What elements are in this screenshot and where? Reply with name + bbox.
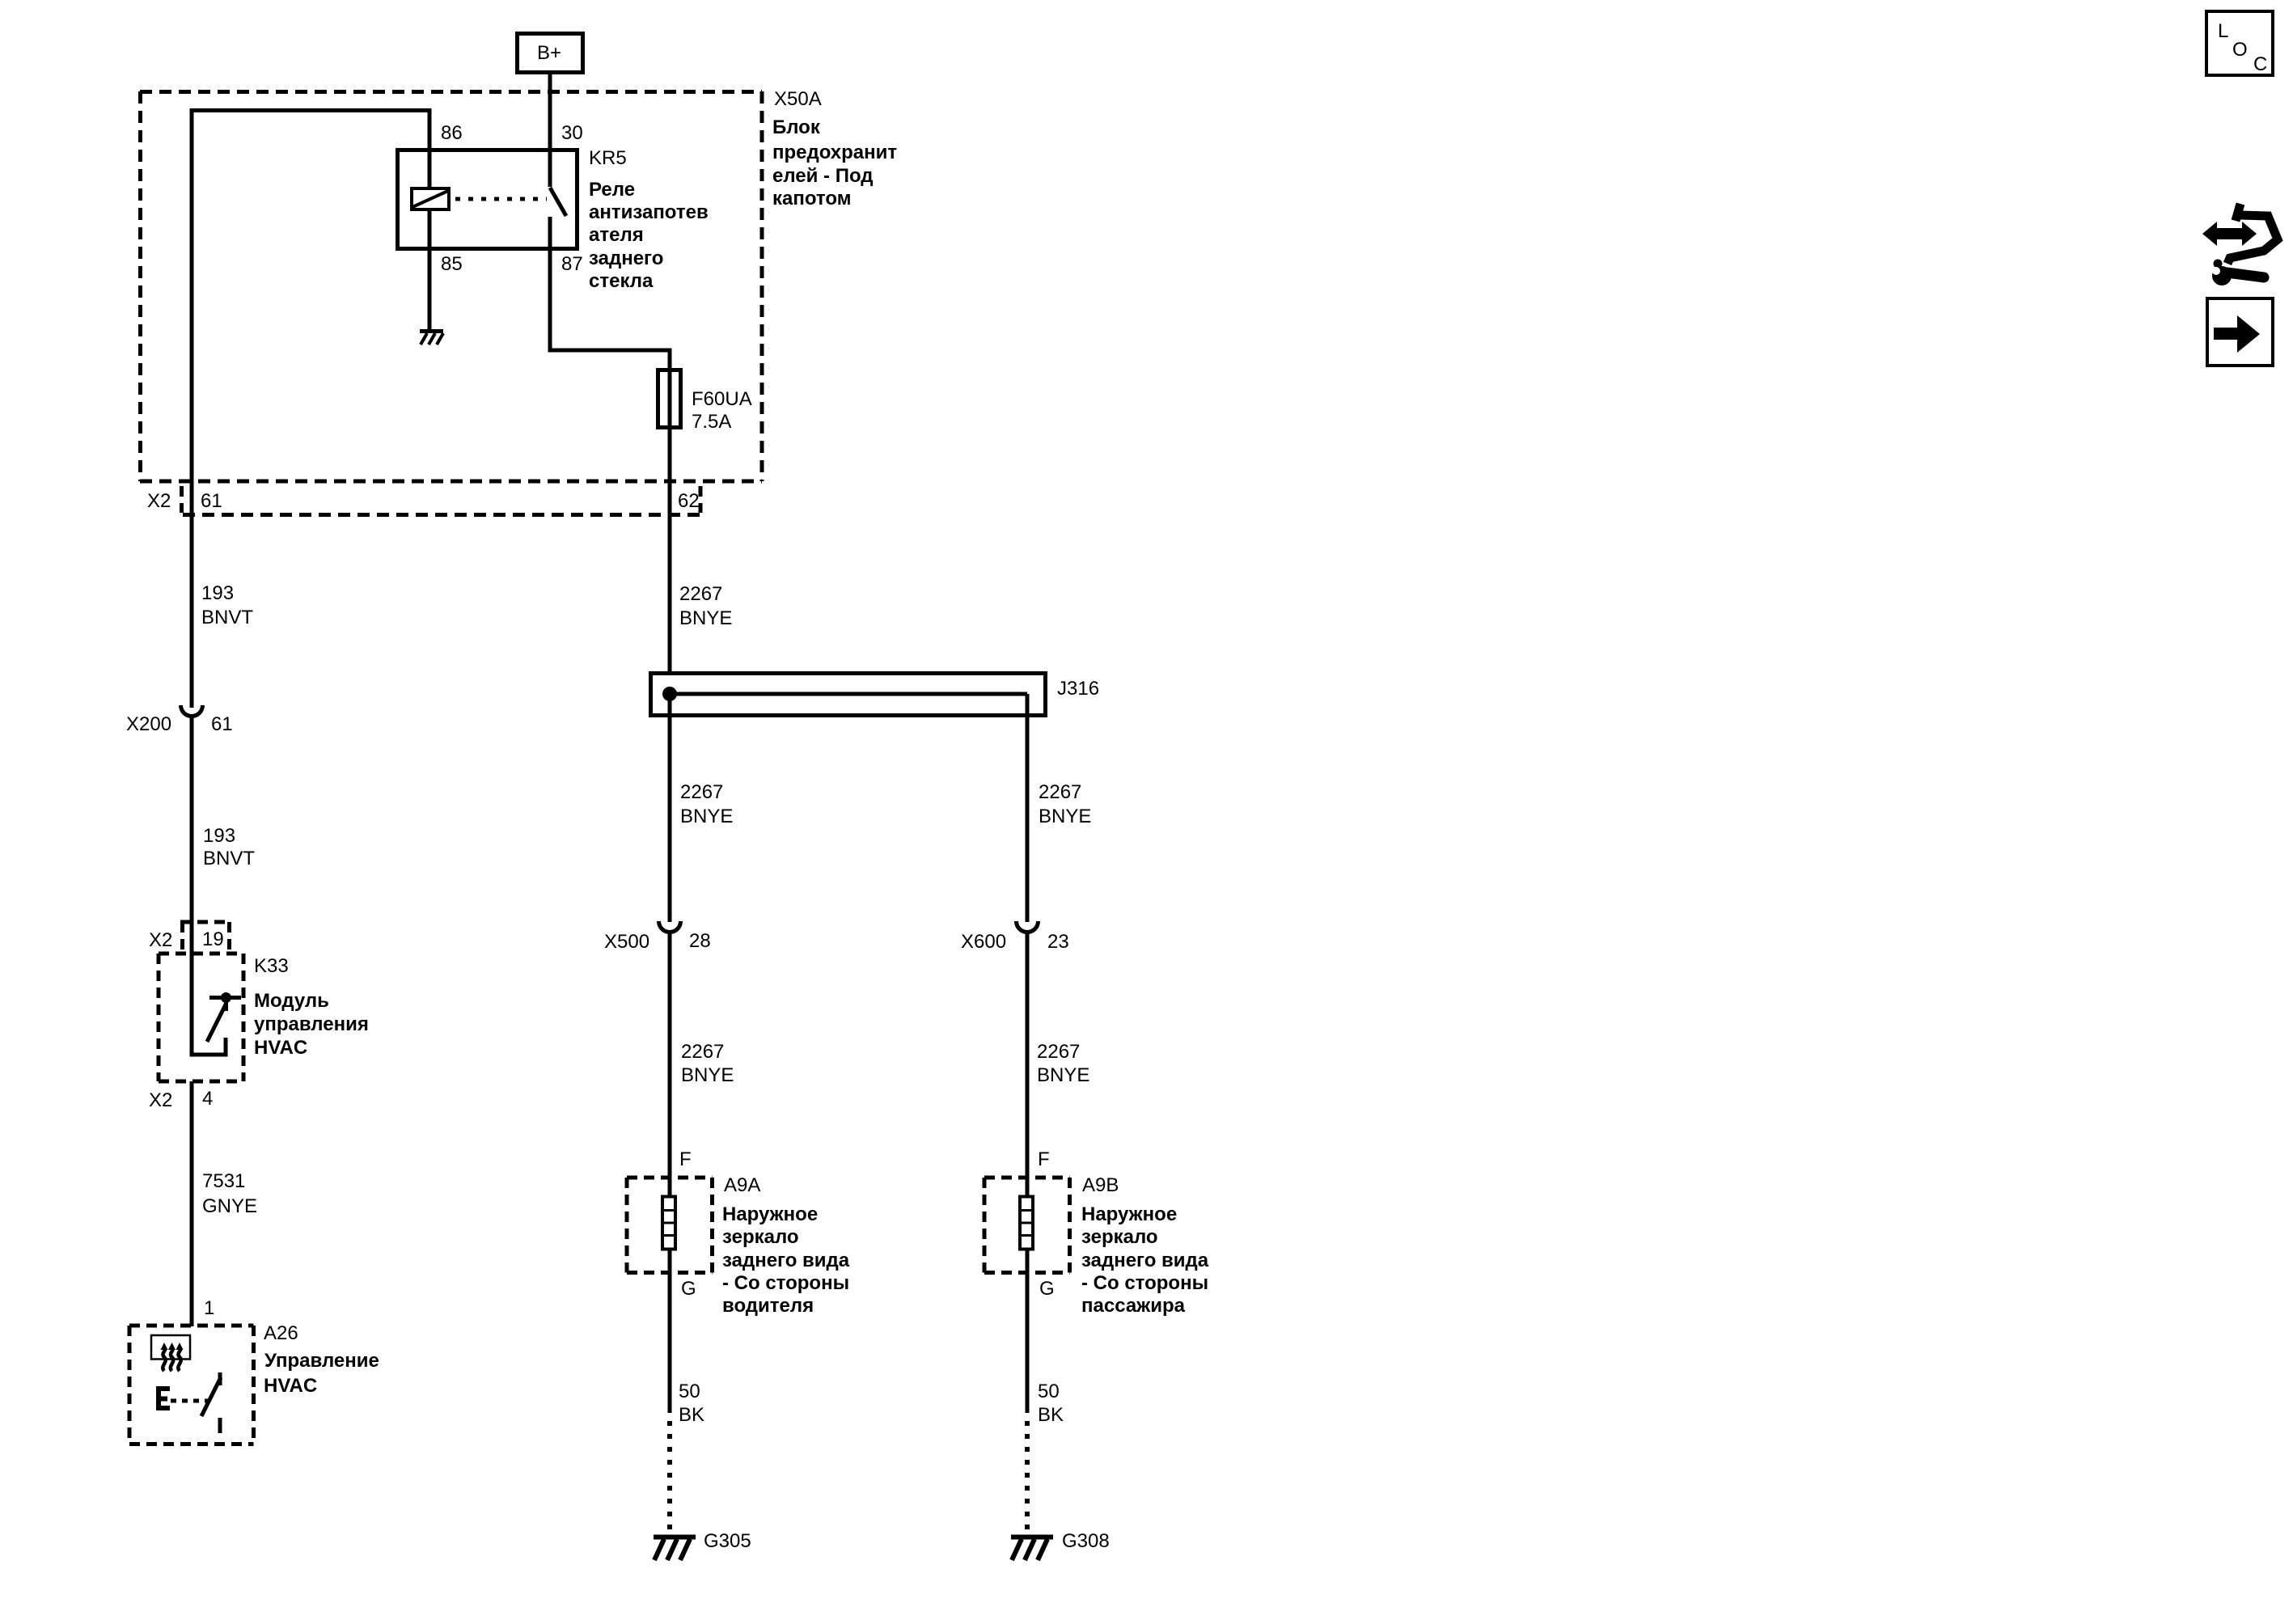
svg-text:K33: K33	[254, 955, 289, 977]
svg-text:BNYE: BNYE	[681, 1064, 734, 1086]
svg-text:193: 193	[203, 825, 235, 847]
svg-text:Наружное: Наружное	[722, 1203, 818, 1225]
svg-text:61: 61	[211, 713, 233, 735]
svg-text:50: 50	[1038, 1381, 1060, 1402]
svg-text:HVAC: HVAC	[254, 1037, 307, 1059]
svg-text:HVAC: HVAC	[264, 1375, 317, 1397]
svg-text:заднего вида: заднего вида	[722, 1250, 850, 1271]
svg-text:зеркало: зеркало	[1081, 1226, 1158, 1248]
svg-text:BNYE: BNYE	[679, 607, 732, 629]
svg-text:заднего вида: заднего вида	[1081, 1250, 1209, 1271]
svg-text:пассажира: пассажира	[1081, 1295, 1186, 1317]
svg-text:F: F	[1038, 1148, 1050, 1170]
svg-text:KR5: KR5	[589, 147, 627, 169]
svg-text:антизапотев: антизапотев	[589, 201, 709, 223]
svg-text:X500: X500	[604, 931, 649, 953]
svg-text:2267: 2267	[1039, 781, 1081, 803]
svg-text:Наружное: Наружное	[1081, 1203, 1177, 1225]
svg-text:A9B: A9B	[1082, 1174, 1119, 1196]
svg-text:28: 28	[689, 930, 711, 952]
svg-text:23: 23	[1047, 931, 1069, 953]
svg-text:2267: 2267	[681, 1041, 724, 1063]
svg-text:зеркало: зеркало	[722, 1226, 799, 1248]
svg-text:BK: BK	[1038, 1404, 1064, 1426]
svg-text:19: 19	[202, 928, 224, 950]
svg-text:4: 4	[202, 1088, 213, 1110]
svg-text:1: 1	[204, 1297, 214, 1319]
svg-text:GNYE: GNYE	[202, 1195, 257, 1217]
svg-text:BNYE: BNYE	[1037, 1064, 1089, 1086]
svg-text:Управление: Управление	[264, 1350, 379, 1372]
svg-text:L: L	[2218, 20, 2228, 42]
svg-text:- Со стороны: - Со стороны	[1081, 1272, 1208, 1294]
svg-text:Блок: Блок	[772, 116, 821, 138]
svg-text:X2: X2	[147, 490, 171, 512]
svg-text:30: 30	[561, 122, 583, 144]
svg-text:2267: 2267	[680, 781, 723, 803]
svg-text:BNYE: BNYE	[680, 806, 733, 827]
svg-text:G305: G305	[704, 1530, 751, 1552]
svg-text:капотом: капотом	[772, 188, 851, 209]
svg-text:7.5A: 7.5A	[692, 411, 731, 433]
svg-text:7531: 7531	[202, 1170, 245, 1192]
svg-text:61: 61	[201, 490, 222, 512]
svg-text:2267: 2267	[1037, 1041, 1080, 1063]
svg-text:2267: 2267	[679, 583, 722, 605]
svg-text:O: O	[2232, 39, 2248, 61]
svg-text:86: 86	[441, 122, 463, 144]
svg-text:C: C	[2253, 53, 2267, 75]
svg-text:X600: X600	[961, 931, 1006, 953]
svg-text:A26: A26	[264, 1322, 298, 1344]
svg-text:X2: X2	[149, 929, 172, 951]
svg-text:водителя: водителя	[722, 1295, 814, 1317]
svg-text:A9A: A9A	[724, 1174, 760, 1196]
svg-text:Реле: Реле	[589, 179, 635, 201]
svg-text:ателя: ателя	[589, 224, 644, 246]
svg-text:BNVT: BNVT	[201, 607, 253, 628]
svg-text:X50A: X50A	[774, 88, 822, 110]
svg-text:62: 62	[678, 490, 700, 512]
svg-text:стекла: стекла	[589, 270, 654, 292]
svg-text:X200: X200	[126, 713, 171, 735]
svg-text:X2: X2	[149, 1089, 172, 1111]
svg-text:F60UA: F60UA	[692, 388, 752, 410]
svg-text:G: G	[681, 1278, 696, 1300]
svg-text:B+: B+	[537, 42, 561, 64]
svg-text:предохранит: предохранит	[772, 142, 897, 163]
svg-text:193: 193	[201, 582, 234, 604]
svg-text:BNVT: BNVT	[203, 848, 255, 869]
svg-text:Модуль: Модуль	[254, 990, 329, 1012]
svg-text:- Со стороны: - Со стороны	[722, 1272, 849, 1294]
svg-text:заднего: заднего	[589, 247, 663, 269]
svg-text:BNYE: BNYE	[1039, 806, 1091, 827]
svg-text:BK: BK	[679, 1404, 704, 1426]
svg-text:G: G	[1039, 1278, 1055, 1300]
svg-text:85: 85	[441, 253, 463, 275]
svg-text:управления: управления	[254, 1013, 369, 1035]
svg-text:G308: G308	[1062, 1530, 1110, 1552]
svg-text:87: 87	[561, 253, 583, 275]
svg-text:J316: J316	[1057, 678, 1099, 700]
svg-text:F: F	[679, 1148, 692, 1170]
svg-text:50: 50	[679, 1381, 700, 1402]
svg-text:елей - Под: елей - Под	[772, 165, 874, 187]
